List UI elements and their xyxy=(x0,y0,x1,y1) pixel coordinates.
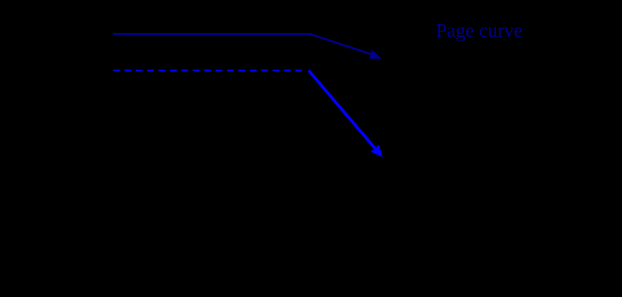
wire: thick diagonal arrow shaft xyxy=(309,70,377,149)
arrowhead of thick arrow xyxy=(371,145,383,158)
node label: Page curve xyxy=(436,21,576,43)
wire: thin solid bent line (upper annotation) xyxy=(113,34,375,55)
arrowhead of upper thin arrow xyxy=(369,50,382,59)
wire: dashed horizontal line xyxy=(113,70,302,72)
